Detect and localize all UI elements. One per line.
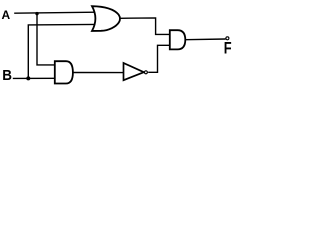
wire U1 output to U4 top input (120, 18, 170, 35)
svg-text:B: B (2, 66, 12, 83)
wire A (14, 12, 96, 13)
svg-text:A: A (2, 8, 11, 22)
or-gate U1 (92, 6, 120, 31)
wire U4 output to terminal (185, 38, 225, 41)
svg-text:F: F (224, 40, 232, 58)
and-gate U2 (55, 61, 73, 83)
wire U2 output to inverter U3 (73, 72, 124, 74)
output terminal circle (226, 37, 229, 40)
wire B-junction up to OR U1 second input (28, 24, 96, 78)
node junction on A (35, 12, 38, 15)
wire B (13, 77, 56, 79)
node junction on B (26, 76, 30, 80)
wire A-junction down to AND U2 top input (37, 14, 56, 65)
inverter U3 triangle (124, 63, 144, 80)
and-gate U4 (170, 30, 186, 49)
inverter U3 bubble (144, 71, 147, 74)
wire U3 output up to U4 bottom input (148, 45, 170, 72)
